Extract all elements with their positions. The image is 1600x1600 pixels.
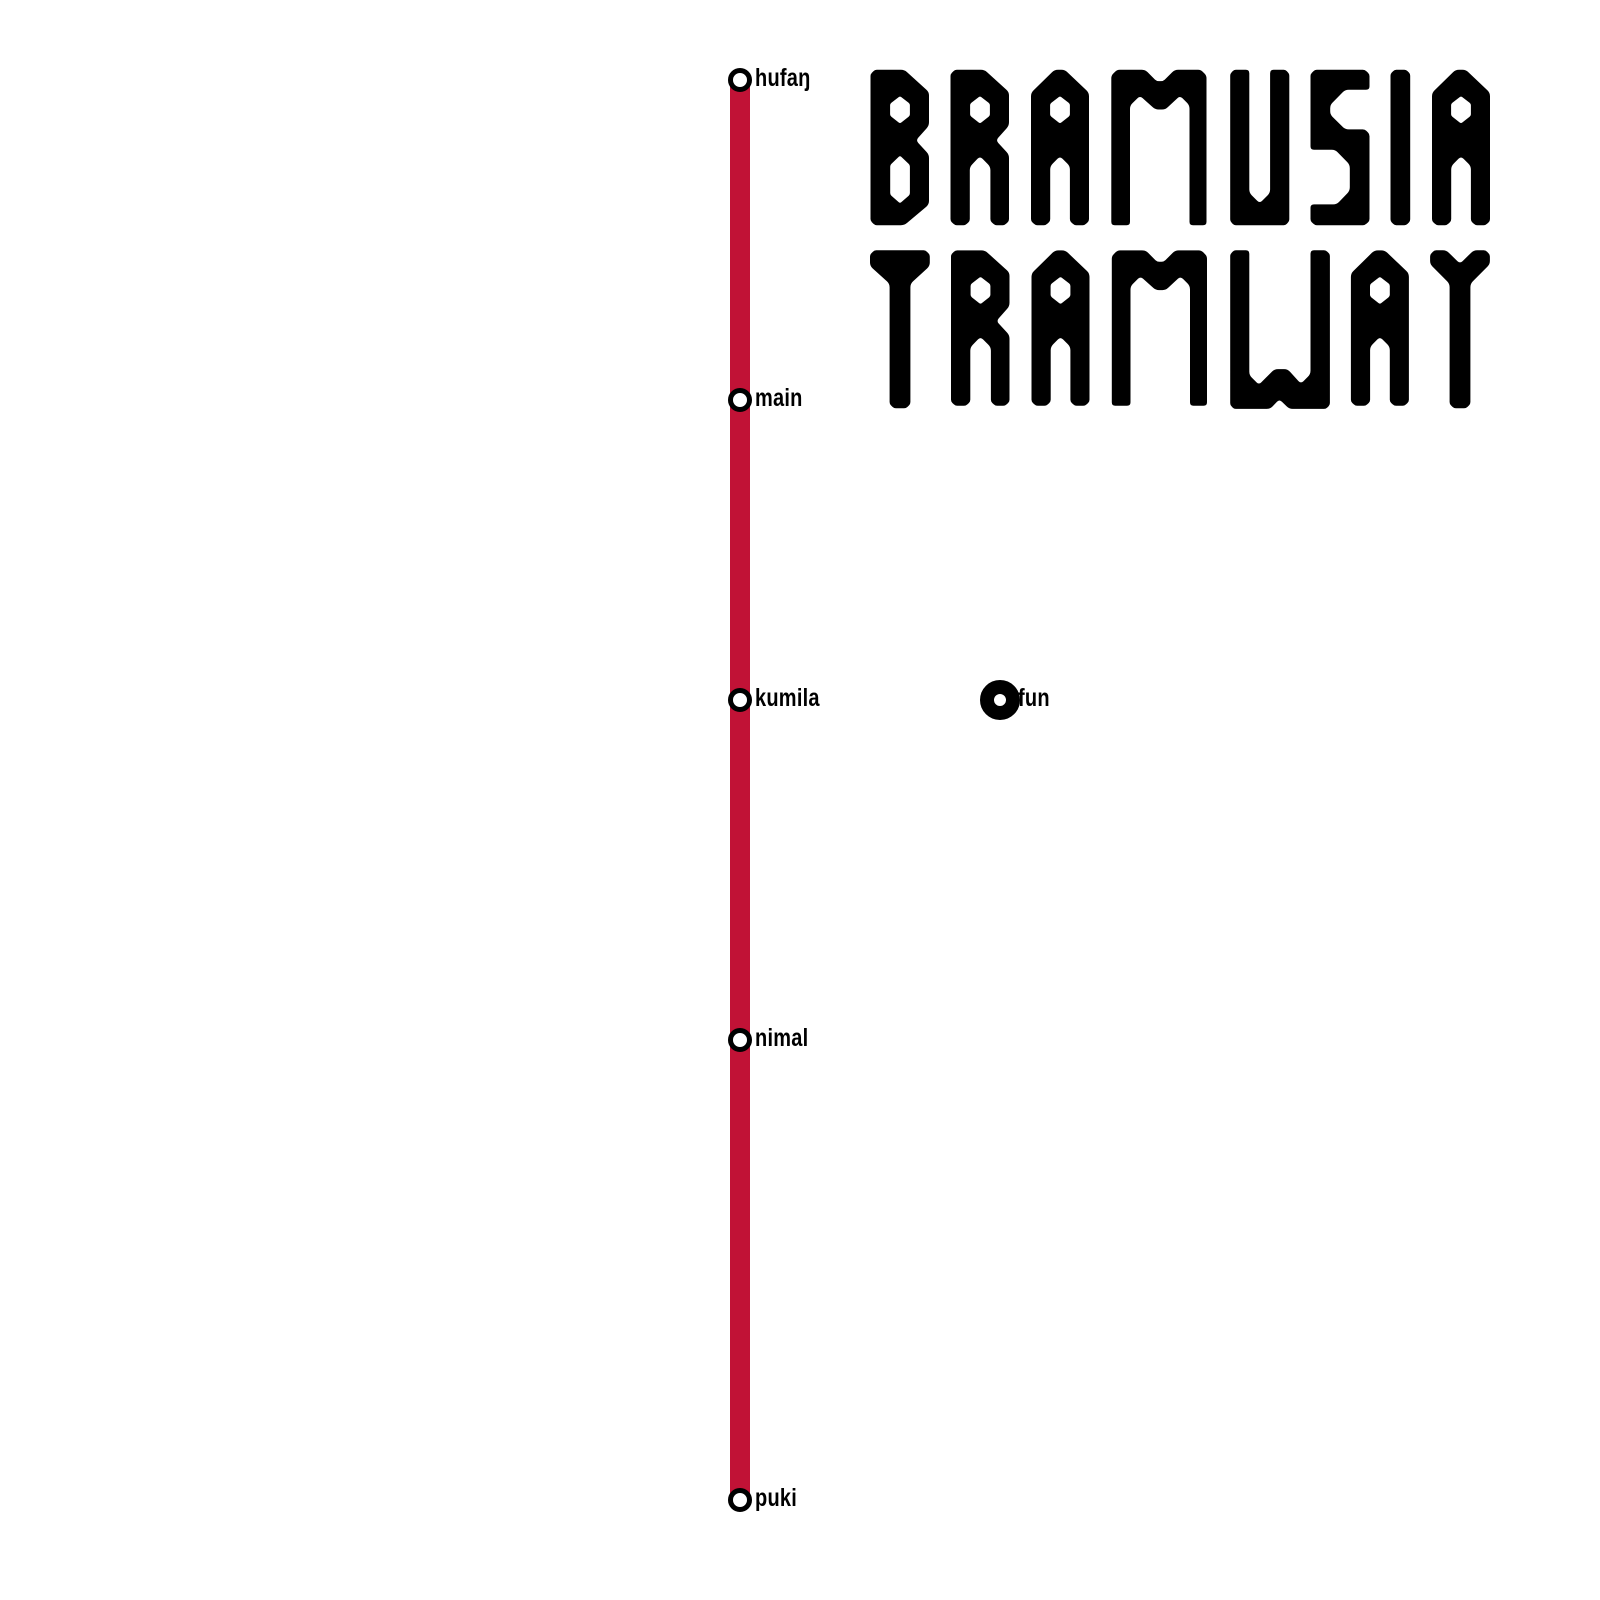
- title letter A (line 1): [1031, 70, 1089, 225]
- title letter T (line 2): [870, 250, 930, 408]
- title letter U (line 1): [1230, 70, 1289, 225]
- title letter M (line 1): [1111, 70, 1206, 225]
- station hufaŋ: [731, 71, 750, 90]
- title letter M (line 2): [1112, 250, 1207, 405]
- title letter R (line 2): [951, 250, 1010, 405]
- station main: [731, 391, 750, 410]
- svg-text:puki: puki: [755, 1484, 797, 1512]
- title letter I (line 1): [1391, 70, 1411, 225]
- title letter R (line 1): [951, 70, 1010, 225]
- station fun (interchange dot): [987, 687, 1013, 713]
- svg-text:kumila: kumila: [755, 684, 820, 712]
- title letter W (line 2): [1230, 250, 1330, 409]
- svg-text:hufaŋ: hufaŋ: [755, 64, 811, 92]
- title letter S (line 1): [1311, 70, 1370, 225]
- tram line (red route hufaŋ-puki): [730, 80, 750, 1500]
- title letter A (line 1): [1432, 70, 1490, 225]
- title letter A (line 2): [1032, 250, 1090, 405]
- station puki: [731, 1491, 750, 1510]
- svg-text:nimal: nimal: [755, 1024, 808, 1052]
- title letter Y (line 2): [1430, 250, 1490, 408]
- station nimal: [731, 1031, 750, 1050]
- station kumila: [731, 691, 750, 710]
- title BRAMUSIA TRAMWAY: [870, 70, 1490, 409]
- svg-text:main: main: [755, 384, 803, 412]
- title letter A (line 2): [1351, 250, 1409, 405]
- title letter B (line 1): [871, 70, 930, 225]
- svg-text:fun: fun: [1018, 684, 1050, 712]
